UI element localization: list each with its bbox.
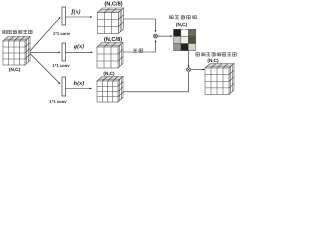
svg-text:1*1 conv: 1*1 conv xyxy=(52,63,70,68)
multiply circle1 xyxy=(154,34,158,38)
svg-text:1*1 conv: 1*1 conv xyxy=(49,99,67,104)
svg-text:h(x): h(x) xyxy=(74,80,85,87)
svg-text:g(x): g(x) xyxy=(73,43,84,50)
wire cube2 right then up to multiply circle1 xyxy=(123,40,156,52)
wire matrix down to multiply circle2 xyxy=(188,51,190,67)
cube2 g output (N,C/8) xyxy=(97,43,123,69)
arrow circle1 to attention matrix xyxy=(158,35,173,37)
fan arrow to f conv xyxy=(30,17,60,51)
fan arrow to h conv xyxy=(30,54,60,85)
attention matrix 3x3 xyxy=(174,29,196,50)
arrow f conv to cube1 xyxy=(66,16,92,18)
output cube (N,C) xyxy=(205,64,234,95)
arrow h conv to cube3 xyxy=(66,88,92,90)
label 注意力矩阵 above matrix xyxy=(170,15,197,19)
wire cube3 right then up to circle2 xyxy=(123,72,189,92)
svg-text:(N,C): (N,C) xyxy=(103,71,115,76)
fan arrow to g conv xyxy=(30,51,60,53)
svg-text:(N,C/8): (N,C/8) xyxy=(104,0,122,7)
svg-text:(N,C/8): (N,C/8) xyxy=(104,36,122,43)
svg-text:1*1 conv: 1*1 conv xyxy=(53,31,71,36)
arrow circle2 to output cube xyxy=(191,69,205,71)
wire cube1 right then down to multiply circle1 xyxy=(124,19,156,32)
label 转置 (transpose) xyxy=(133,49,143,53)
arrow g conv to cube2 xyxy=(66,51,93,53)
1x1 conv block f xyxy=(62,7,66,25)
input feature map cube (N,C) xyxy=(3,37,30,66)
svg-text:f(x): f(x) xyxy=(71,9,80,16)
left label: 待处理的底图 xyxy=(3,30,32,34)
svg-text:(N,C): (N,C) xyxy=(9,67,21,72)
cube1 f output (N,C/8) xyxy=(98,8,124,34)
svg-text:(N,C): (N,C) xyxy=(176,22,188,27)
1x1 conv block h xyxy=(62,77,66,96)
multiply circle2 xyxy=(187,68,191,72)
1x1 conv block g xyxy=(62,43,66,61)
label 空间注意力特征图 xyxy=(196,53,236,57)
svg-text:(N,C): (N,C) xyxy=(207,58,219,63)
cube3 h output (N,C) xyxy=(97,77,123,103)
